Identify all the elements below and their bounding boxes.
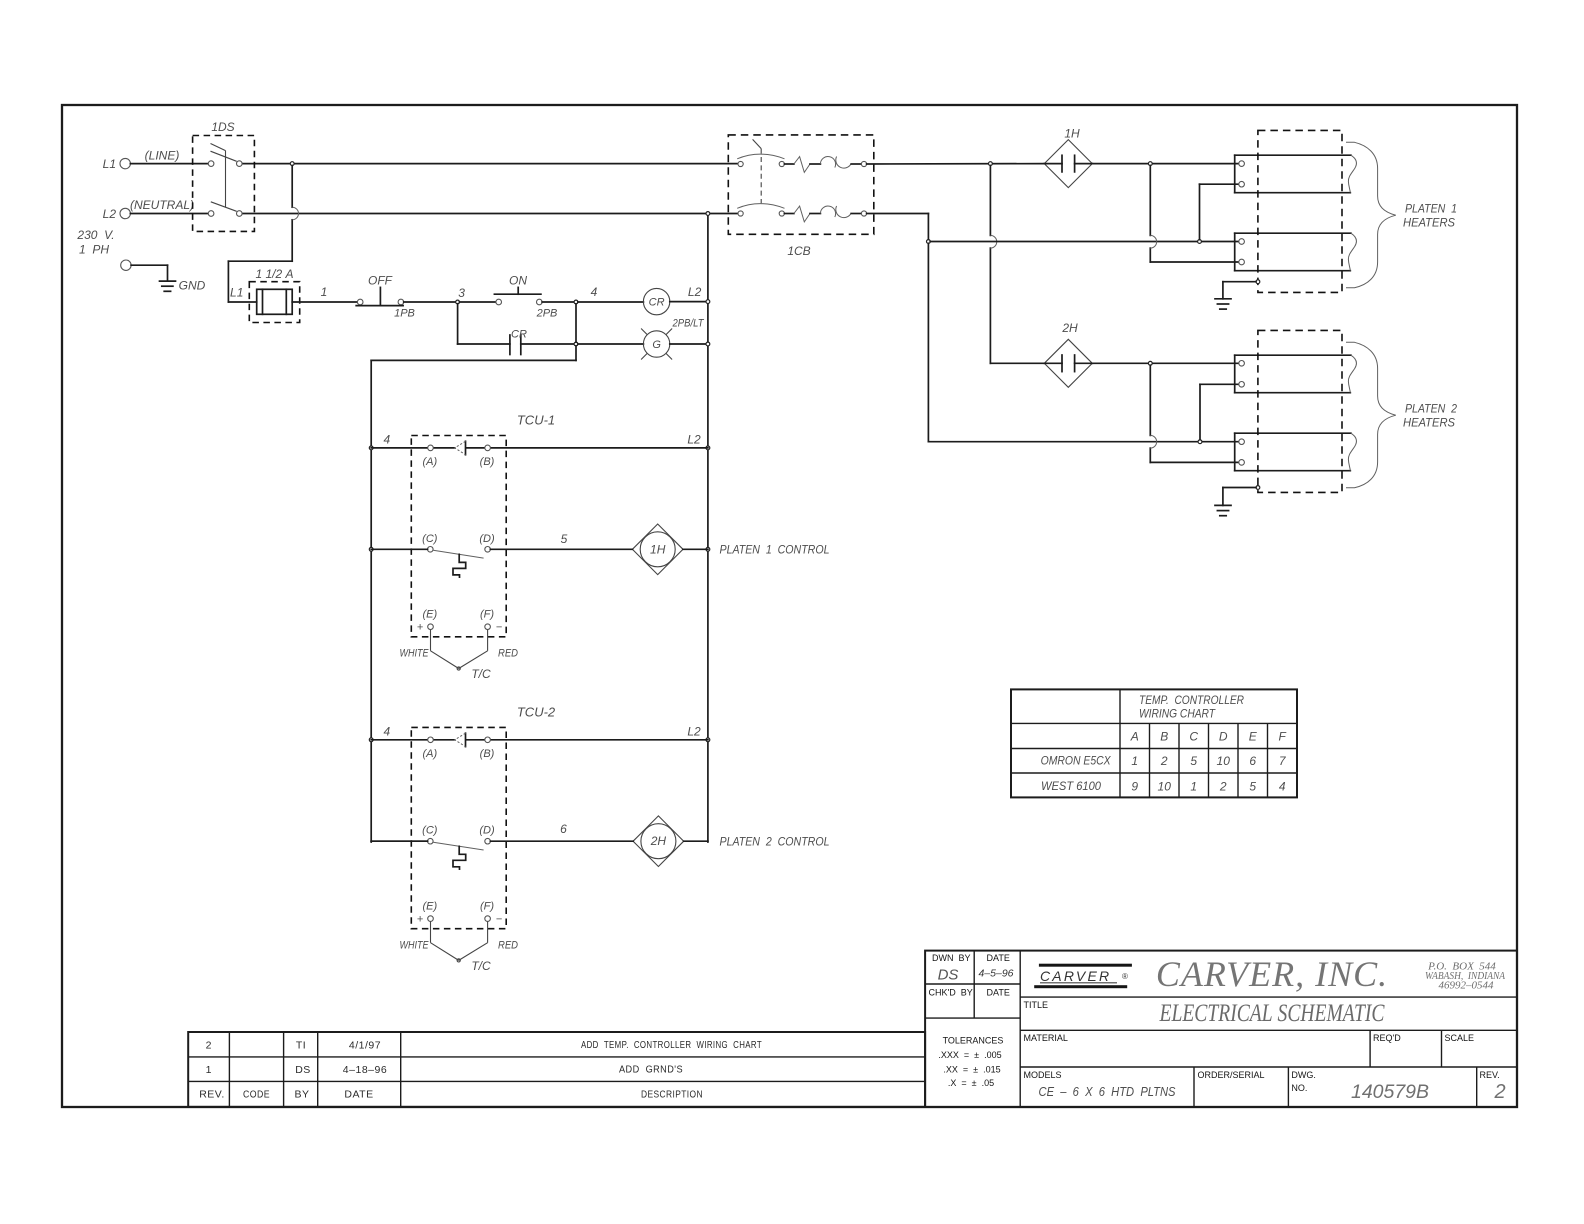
svg-text:NO.: NO. — [1291, 1083, 1307, 1093]
svg-text:DATE: DATE — [987, 953, 1010, 963]
node platen1 chassis — [1256, 280, 1260, 284]
disconnect switch 1DS — [193, 136, 255, 232]
title block outline — [925, 951, 1517, 1107]
terminal (B) TCU-1 — [480, 445, 495, 468]
svg-text:WHITE: WHITE — [400, 940, 430, 952]
node platen2 L2 — [1198, 440, 1202, 444]
svg-text:ADD GRND'S: ADD GRND'S — [619, 1064, 683, 1076]
wire row4 TCU-1 — [371, 447, 708, 449]
wire D to 1H — [490, 548, 632, 550]
svg-text:L2: L2 — [103, 207, 117, 221]
svg-text:SCALE: SCALE — [1445, 1033, 1475, 1043]
svg-text:REV.: REV. — [199, 1089, 225, 1101]
wire CR coil to L2 rail — [670, 301, 707, 303]
svg-text:9: 9 — [1131, 780, 1138, 794]
svg-text:ADD TEMP. CONTROLLER WIRING: ADD TEMP. CONTROLLER WIRING CHART — [581, 1039, 762, 1051]
svg-text:TEMP. CONTROLLER: TEMP. CONTROLLER — [1139, 693, 1244, 707]
svg-text:DESCRIPTION: DESCRIPTION — [641, 1089, 703, 1101]
node 3 — [456, 300, 460, 304]
svg-text:DS: DS — [938, 967, 959, 984]
svg-text:C: C — [1189, 730, 1198, 744]
wire 1PB to node 3 — [404, 301, 456, 303]
svg-text:1 1/2 A: 1 1/2 A — [255, 267, 293, 281]
svg-text:6: 6 — [560, 822, 567, 836]
node platen1 L2 — [1198, 240, 1202, 244]
relay coil CR — [643, 288, 669, 314]
wire L2 to platen1 heaters — [930, 241, 1239, 243]
svg-text:BY: BY — [294, 1089, 309, 1101]
svg-text:F: F — [1279, 730, 1287, 744]
svg-text:1: 1 — [1190, 780, 1197, 794]
svg-text:HEATERS: HEATERS — [1403, 216, 1455, 230]
internal triangle symbol TCU-2 — [455, 733, 466, 746]
node rail CR row — [706, 300, 710, 304]
wire platen1 heater1 bottom to L2 node — [1200, 184, 1240, 239]
svg-text:ON: ON — [509, 274, 527, 288]
svg-text:RED: RED — [498, 940, 518, 952]
svg-text:B: B — [1160, 730, 1168, 744]
label (LINE) — [145, 149, 180, 163]
svg-text:2: 2 — [206, 1040, 212, 1052]
node 4 — [574, 300, 578, 304]
ground platen1 — [1215, 282, 1256, 309]
svg-text:CE – 6 X 6 HTD PLTNS: CE – 6 X 6 HTD PLTNS — [1039, 1084, 1176, 1099]
svg-text:L1: L1 — [230, 286, 243, 300]
svg-text:4: 4 — [1279, 780, 1286, 794]
wire hop over L2 — [292, 207, 298, 220]
brace platen1 — [1346, 142, 1396, 287]
terminal (C) TCU-1 — [422, 533, 438, 552]
temperature controller TCU-2 — [411, 727, 506, 928]
wire 2H feed vertical (with hop) — [990, 166, 1044, 364]
svg-text:PLATEN 2: PLATEN 2 — [1405, 402, 1457, 416]
svg-text:DS: DS — [295, 1064, 311, 1076]
svg-text:2PB/LT: 2PB/LT — [672, 318, 705, 330]
control output 2H — [633, 816, 684, 867]
svg-text:1: 1 — [321, 285, 328, 299]
ground platen2 — [1215, 488, 1256, 516]
table row OMRON E5CX — [1041, 754, 1287, 769]
wire GND terminal to ground — [131, 265, 167, 281]
wire 1H to rail — [683, 548, 708, 550]
company name CARVER, INC. — [1156, 954, 1388, 994]
wire seal node to G lamp — [578, 343, 644, 345]
label (NEUTRAL) — [130, 198, 194, 212]
svg-text:(E): (E) — [422, 901, 437, 913]
svg-text:4–5–96: 4–5–96 — [978, 968, 1013, 980]
title block DWN BY cell — [932, 953, 971, 984]
label PLATEN 1 HEATERS — [1403, 202, 1457, 230]
wire node3 down to seal-in row — [457, 304, 459, 344]
svg-text:.X = ± .05: .X = ± .05 — [948, 1078, 994, 1088]
svg-text:E: E — [1249, 730, 1258, 744]
svg-text:.XXX = ± .005: .XXX = ± .005 — [938, 1050, 1001, 1060]
svg-text:L2: L2 — [688, 285, 702, 299]
revision header row — [199, 1089, 703, 1101]
node left rail row 0 — [369, 446, 373, 450]
svg-text:1H: 1H — [650, 542, 666, 556]
terminal L1 — [103, 157, 131, 171]
node rail row 1 — [706, 547, 710, 551]
node rail row 0 — [706, 446, 710, 450]
svg-text:PLATEN 1: PLATEN 1 — [1405, 202, 1457, 216]
revision table — [188, 1032, 925, 1107]
pushbutton 1PB OFF (NC) — [356, 287, 404, 305]
svg-text:DWG.: DWG. — [1291, 1070, 1316, 1080]
pushbutton 2PB ON (NO) — [494, 287, 542, 304]
ground GND symbol — [160, 279, 206, 293]
terminal (F) TCU-2 — [480, 901, 494, 922]
svg-text:+: + — [417, 914, 424, 926]
svg-text:4: 4 — [383, 432, 390, 446]
node 2H feed tap — [989, 162, 993, 166]
label PLATEN 2 HEATERS — [1403, 402, 1457, 430]
svg-text:2PB: 2PB — [536, 308, 558, 320]
wire fuse to 1PB — [292, 301, 357, 303]
wire L1 node down to fuse (with hop over L2) — [228, 166, 292, 303]
revision row 2 — [206, 1039, 762, 1052]
wire left rail to C TCU-1 — [371, 548, 427, 550]
wire D to 2H — [490, 840, 633, 842]
wire 1CB pole2 to corner — [867, 214, 929, 240]
title block DWG NO cell — [1291, 1070, 1429, 1103]
node left rail row 1 — [369, 547, 373, 551]
table row WEST 6100 — [1041, 779, 1286, 794]
svg-text:T/C: T/C — [471, 667, 491, 681]
svg-text:TCU-2: TCU-2 — [517, 704, 556, 719]
svg-text:2H: 2H — [1061, 321, 1078, 335]
wire node4 down to seal node — [575, 304, 577, 342]
svg-text:2: 2 — [1160, 754, 1168, 768]
svg-text:DATE: DATE — [344, 1089, 373, 1101]
svg-text:4/1/97: 4/1/97 — [349, 1040, 381, 1052]
label 230 V. 1 PH — [76, 228, 114, 257]
node L2 power branch — [927, 240, 931, 244]
table temp controller wiring chart — [1011, 689, 1297, 797]
svg-text:PLATEN 1 CONTROL: PLATEN 1 CONTROL — [720, 543, 830, 557]
svg-text:(LINE): (LINE) — [145, 149, 180, 163]
svg-text:1 PH: 1 PH — [79, 243, 109, 257]
svg-text:RED: RED — [498, 648, 518, 660]
svg-text:1PB: 1PB — [394, 308, 415, 320]
svg-text:REQ'D: REQ'D — [1373, 1033, 1401, 1043]
wire 1H to heater — [1092, 163, 1239, 165]
wire seal node down and left to TCU rail — [371, 346, 576, 842]
dashed enclosure platen2 heaters — [1258, 330, 1342, 492]
svg-text:5: 5 — [561, 532, 568, 546]
terminal GND — [121, 260, 131, 270]
node left rail row 2 — [369, 738, 373, 742]
contact blade C-D TCU-1 — [433, 550, 483, 558]
svg-text:HEATERS: HEATERS — [1403, 416, 1455, 430]
wire 1H output down (with hop) to heater2 bottom — [1150, 166, 1239, 263]
SSR output 2H (power) — [1044, 339, 1092, 387]
svg-text:TI: TI — [296, 1040, 306, 1052]
1CB pole 1 — [737, 139, 866, 172]
svg-text:1: 1 — [1131, 754, 1138, 768]
temperature controller TCU-1 — [411, 436, 506, 637]
svg-text:−: − — [496, 914, 503, 926]
dashed enclosure platen1 heaters — [1258, 130, 1342, 292]
svg-text:GND: GND — [179, 279, 206, 293]
revision row 1 — [206, 1064, 683, 1077]
svg-text:G: G — [652, 339, 661, 351]
wire G lamp to L2 rail — [670, 343, 707, 345]
svg-text:6: 6 — [1249, 754, 1256, 768]
svg-text:10: 10 — [1158, 780, 1172, 794]
svg-text:2H: 2H — [650, 834, 667, 848]
wire 2H to rail — [684, 840, 708, 842]
svg-text:4: 4 — [591, 285, 598, 299]
border frame — [62, 105, 1517, 1107]
setpoint step symbol TCU-2 — [453, 846, 466, 869]
svg-text:(A): (A) — [422, 456, 437, 468]
setpoint step symbol TCU-1 — [453, 554, 466, 577]
svg-text:CR: CR — [649, 297, 665, 309]
svg-text:230 V.: 230 V. — [76, 228, 114, 242]
terminal (E) TCU-2 — [422, 901, 437, 922]
svg-text:OFF: OFF — [368, 274, 393, 288]
svg-text:1DS: 1DS — [211, 120, 234, 134]
svg-text:3: 3 — [458, 286, 465, 300]
svg-text:WIRING CHART: WIRING CHART — [1139, 707, 1216, 721]
svg-text:(C): (C) — [422, 533, 438, 545]
svg-text:1CB: 1CB — [787, 244, 810, 258]
wire L1 terminal to 1DS — [130, 163, 208, 165]
svg-text:(A): (A) — [422, 748, 437, 760]
svg-text:(F): (F) — [480, 901, 494, 913]
terminal (C) TCU-2 — [422, 825, 438, 844]
terminal (E) TCU-1 — [422, 609, 437, 630]
svg-text:T/C: T/C — [471, 959, 491, 973]
wire CR contact to node — [521, 343, 574, 345]
svg-text:(D): (D) — [479, 533, 495, 545]
terminal (B) TCU-2 — [480, 737, 495, 760]
svg-text:ORDER/SERIAL: ORDER/SERIAL — [1198, 1070, 1265, 1080]
svg-text:CARVER, INC.: CARVER, INC. — [1156, 954, 1388, 994]
wire 2PB to node 4 — [542, 301, 574, 303]
svg-text:ELECTRICAL SCHEMATIC: ELECTRICAL SCHEMATIC — [1159, 1000, 1385, 1027]
svg-text:DATE: DATE — [987, 988, 1010, 998]
node platen2 chassis — [1256, 486, 1260, 490]
SSR output 1H (power) — [1044, 140, 1092, 188]
svg-text:4–18–96: 4–18–96 — [343, 1064, 387, 1076]
svg-text:(E): (E) — [422, 609, 437, 621]
title block tolerances — [938, 1036, 1003, 1089]
svg-text:REV.: REV. — [1480, 1070, 1500, 1080]
svg-text:D: D — [1219, 730, 1228, 744]
svg-text:CODE: CODE — [243, 1089, 270, 1101]
thermocouple wires TCU-2 — [431, 922, 488, 963]
terminal (A) TCU-2 — [422, 737, 437, 760]
svg-text:5: 5 — [1249, 780, 1256, 794]
svg-text:−: − — [496, 622, 503, 634]
svg-text:46992–0544: 46992–0544 — [1439, 980, 1495, 992]
svg-text:2: 2 — [1493, 1081, 1505, 1103]
pilot light G 2PB/LT — [641, 329, 672, 360]
svg-text:MATERIAL: MATERIAL — [1024, 1033, 1068, 1043]
svg-text:.XX = ± .015: .XX = ± .015 — [943, 1065, 1000, 1075]
contact blade C-D TCU-2 — [433, 842, 483, 850]
node 1H output — [1148, 162, 1152, 166]
terminal (D) TCU-2 — [479, 825, 495, 844]
rail L2 vertical — [707, 214, 709, 843]
title block REV cell — [1480, 1070, 1506, 1103]
svg-text:L1: L1 — [103, 157, 116, 171]
wire 2H output down (with hop) to heater4 bottom — [1150, 365, 1239, 462]
heater element platen2 upper — [1235, 355, 1357, 393]
svg-text:5: 5 — [1190, 754, 1197, 768]
terminal L2 — [103, 207, 131, 221]
svg-text:®: ® — [1122, 972, 1128, 981]
wire rail jog TCU-2 row — [371, 840, 427, 842]
svg-text:2: 2 — [1219, 780, 1227, 794]
heater element platen1 lower — [1235, 233, 1357, 271]
heater element platen2 lower — [1235, 433, 1357, 471]
svg-text:10: 10 — [1217, 754, 1231, 768]
svg-text:MODELS: MODELS — [1024, 1070, 1062, 1080]
wire row4 TCU-2 — [371, 739, 708, 741]
wire L2 1DS to 1CB — [242, 213, 738, 215]
1CB pole 2 — [737, 204, 866, 222]
node L2 rail top — [706, 212, 710, 216]
fuse 1FU 1 1/2 A — [249, 282, 299, 323]
svg-text:1H: 1H — [1064, 127, 1080, 141]
node 2H output — [1148, 361, 1152, 365]
svg-text:1: 1 — [206, 1064, 212, 1076]
svg-text:4: 4 — [383, 724, 390, 738]
table header row A-F — [1130, 730, 1287, 744]
svg-text:(C): (C) — [422, 825, 438, 837]
company address — [1425, 961, 1505, 992]
title block TITLE cell — [1024, 1000, 1385, 1027]
node rail G row — [706, 342, 710, 346]
hop 1H output over L2 — [1150, 235, 1156, 248]
thermocouple wires TCU-1 — [431, 630, 488, 671]
svg-text:TCU-1: TCU-1 — [517, 412, 555, 427]
svg-text:(F): (F) — [480, 609, 494, 621]
svg-text:WHITE: WHITE — [400, 648, 430, 660]
wire L2 down to platen2 — [928, 243, 1239, 441]
wire node3 to 2PB — [459, 301, 496, 303]
svg-text:140579B: 140579B — [1351, 1082, 1429, 1103]
svg-text:(B): (B) — [480, 748, 495, 760]
control output 1H — [632, 524, 683, 575]
svg-text:PLATEN 2 CONTROL: PLATEN 2 CONTROL — [720, 835, 830, 849]
internal triangle symbol TCU-1 — [455, 441, 466, 454]
svg-text:L2: L2 — [687, 432, 701, 446]
svg-text:CARVER: CARVER — [1040, 968, 1111, 984]
node L1 control tap — [290, 162, 294, 166]
wire node4 to CR coil — [578, 301, 644, 303]
hop 2H feed over L2 — [990, 235, 996, 248]
CARVER logo — [1034, 964, 1132, 989]
wire platen2 heater3 bottom to L2 node — [1200, 384, 1239, 440]
svg-text:(B): (B) — [480, 456, 495, 468]
terminal (A) TCU-1 — [422, 445, 437, 468]
svg-text:(D): (D) — [479, 825, 495, 837]
title block DATE cell — [978, 953, 1013, 980]
wire L2 terminal to 1DS — [130, 213, 208, 215]
svg-text:TITLE: TITLE — [1024, 1000, 1049, 1010]
hop 2H output over L2 — [1150, 435, 1156, 448]
node rail row 2 — [706, 738, 710, 742]
node seal-in — [574, 342, 578, 346]
wire left rail to C TCU-2 — [371, 840, 427, 842]
svg-text:CHK'D BY: CHK'D BY — [929, 988, 973, 998]
wire seal-in row to CR contact — [458, 343, 510, 345]
svg-text:L2: L2 — [687, 724, 701, 738]
wire 1CB pole1 to 1H — [867, 163, 1045, 165]
svg-text:(NEUTRAL): (NEUTRAL) — [130, 198, 194, 212]
svg-text:CR: CR — [511, 329, 527, 341]
heater element platen1 upper — [1235, 155, 1357, 193]
circuit breaker 1CB — [728, 135, 874, 234]
contact CR (NO) — [510, 335, 521, 355]
svg-text:DWN BY: DWN BY — [932, 953, 971, 963]
svg-text:WEST 6100: WEST 6100 — [1041, 779, 1101, 793]
1CB trip tie bar — [760, 149, 762, 204]
svg-text:A: A — [1130, 730, 1139, 744]
terminal (F) TCU-1 — [480, 609, 494, 630]
brace platen2 — [1346, 342, 1396, 487]
title block MODELS cell — [1024, 1070, 1176, 1099]
terminal (D) TCU-1 — [479, 533, 495, 552]
svg-text:+: + — [417, 622, 424, 634]
wire L1 1DS to 1CB — [242, 163, 738, 165]
svg-text:OMRON E5CX: OMRON E5CX — [1041, 754, 1112, 768]
svg-text:TOLERANCES: TOLERANCES — [943, 1036, 1004, 1046]
wire 2H to heater — [1092, 362, 1239, 364]
label TEMP. CONTROLLER WIRING CHART — [1139, 693, 1244, 721]
title block CHKD BY cell — [929, 988, 1010, 998]
